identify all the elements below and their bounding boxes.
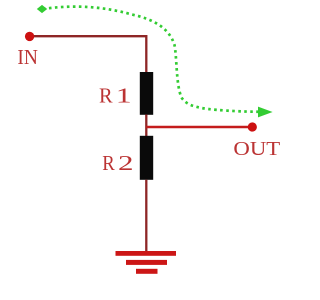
ground bar 1 — [116, 251, 177, 256]
svg-text:R: R — [99, 84, 113, 108]
node OUT dot — [248, 122, 257, 131]
resistor R1 — [140, 72, 153, 115]
resistor R2 — [140, 136, 153, 180]
wire IN to corner to R1 — [30, 36, 146, 72]
svg-text:1: 1 — [116, 84, 132, 108]
svg-text:R: R — [102, 151, 115, 175]
signal flow dotted arrow (green) — [43, 7, 262, 112]
flow start diamond — [37, 5, 47, 13]
wire R2 to ground — [145, 180, 147, 252]
svg-text:OUT: OUT — [233, 138, 280, 160]
svg-text:IN: IN — [17, 45, 38, 69]
svg-text:2: 2 — [118, 151, 134, 175]
ground bar 2 — [126, 260, 167, 265]
ground bar 3 — [136, 269, 158, 274]
flow arrowhead — [258, 107, 273, 118]
wire R1 to junction to R2 — [145, 115, 147, 137]
wire junction to OUT — [146, 126, 252, 129]
node IN dot — [25, 32, 34, 41]
